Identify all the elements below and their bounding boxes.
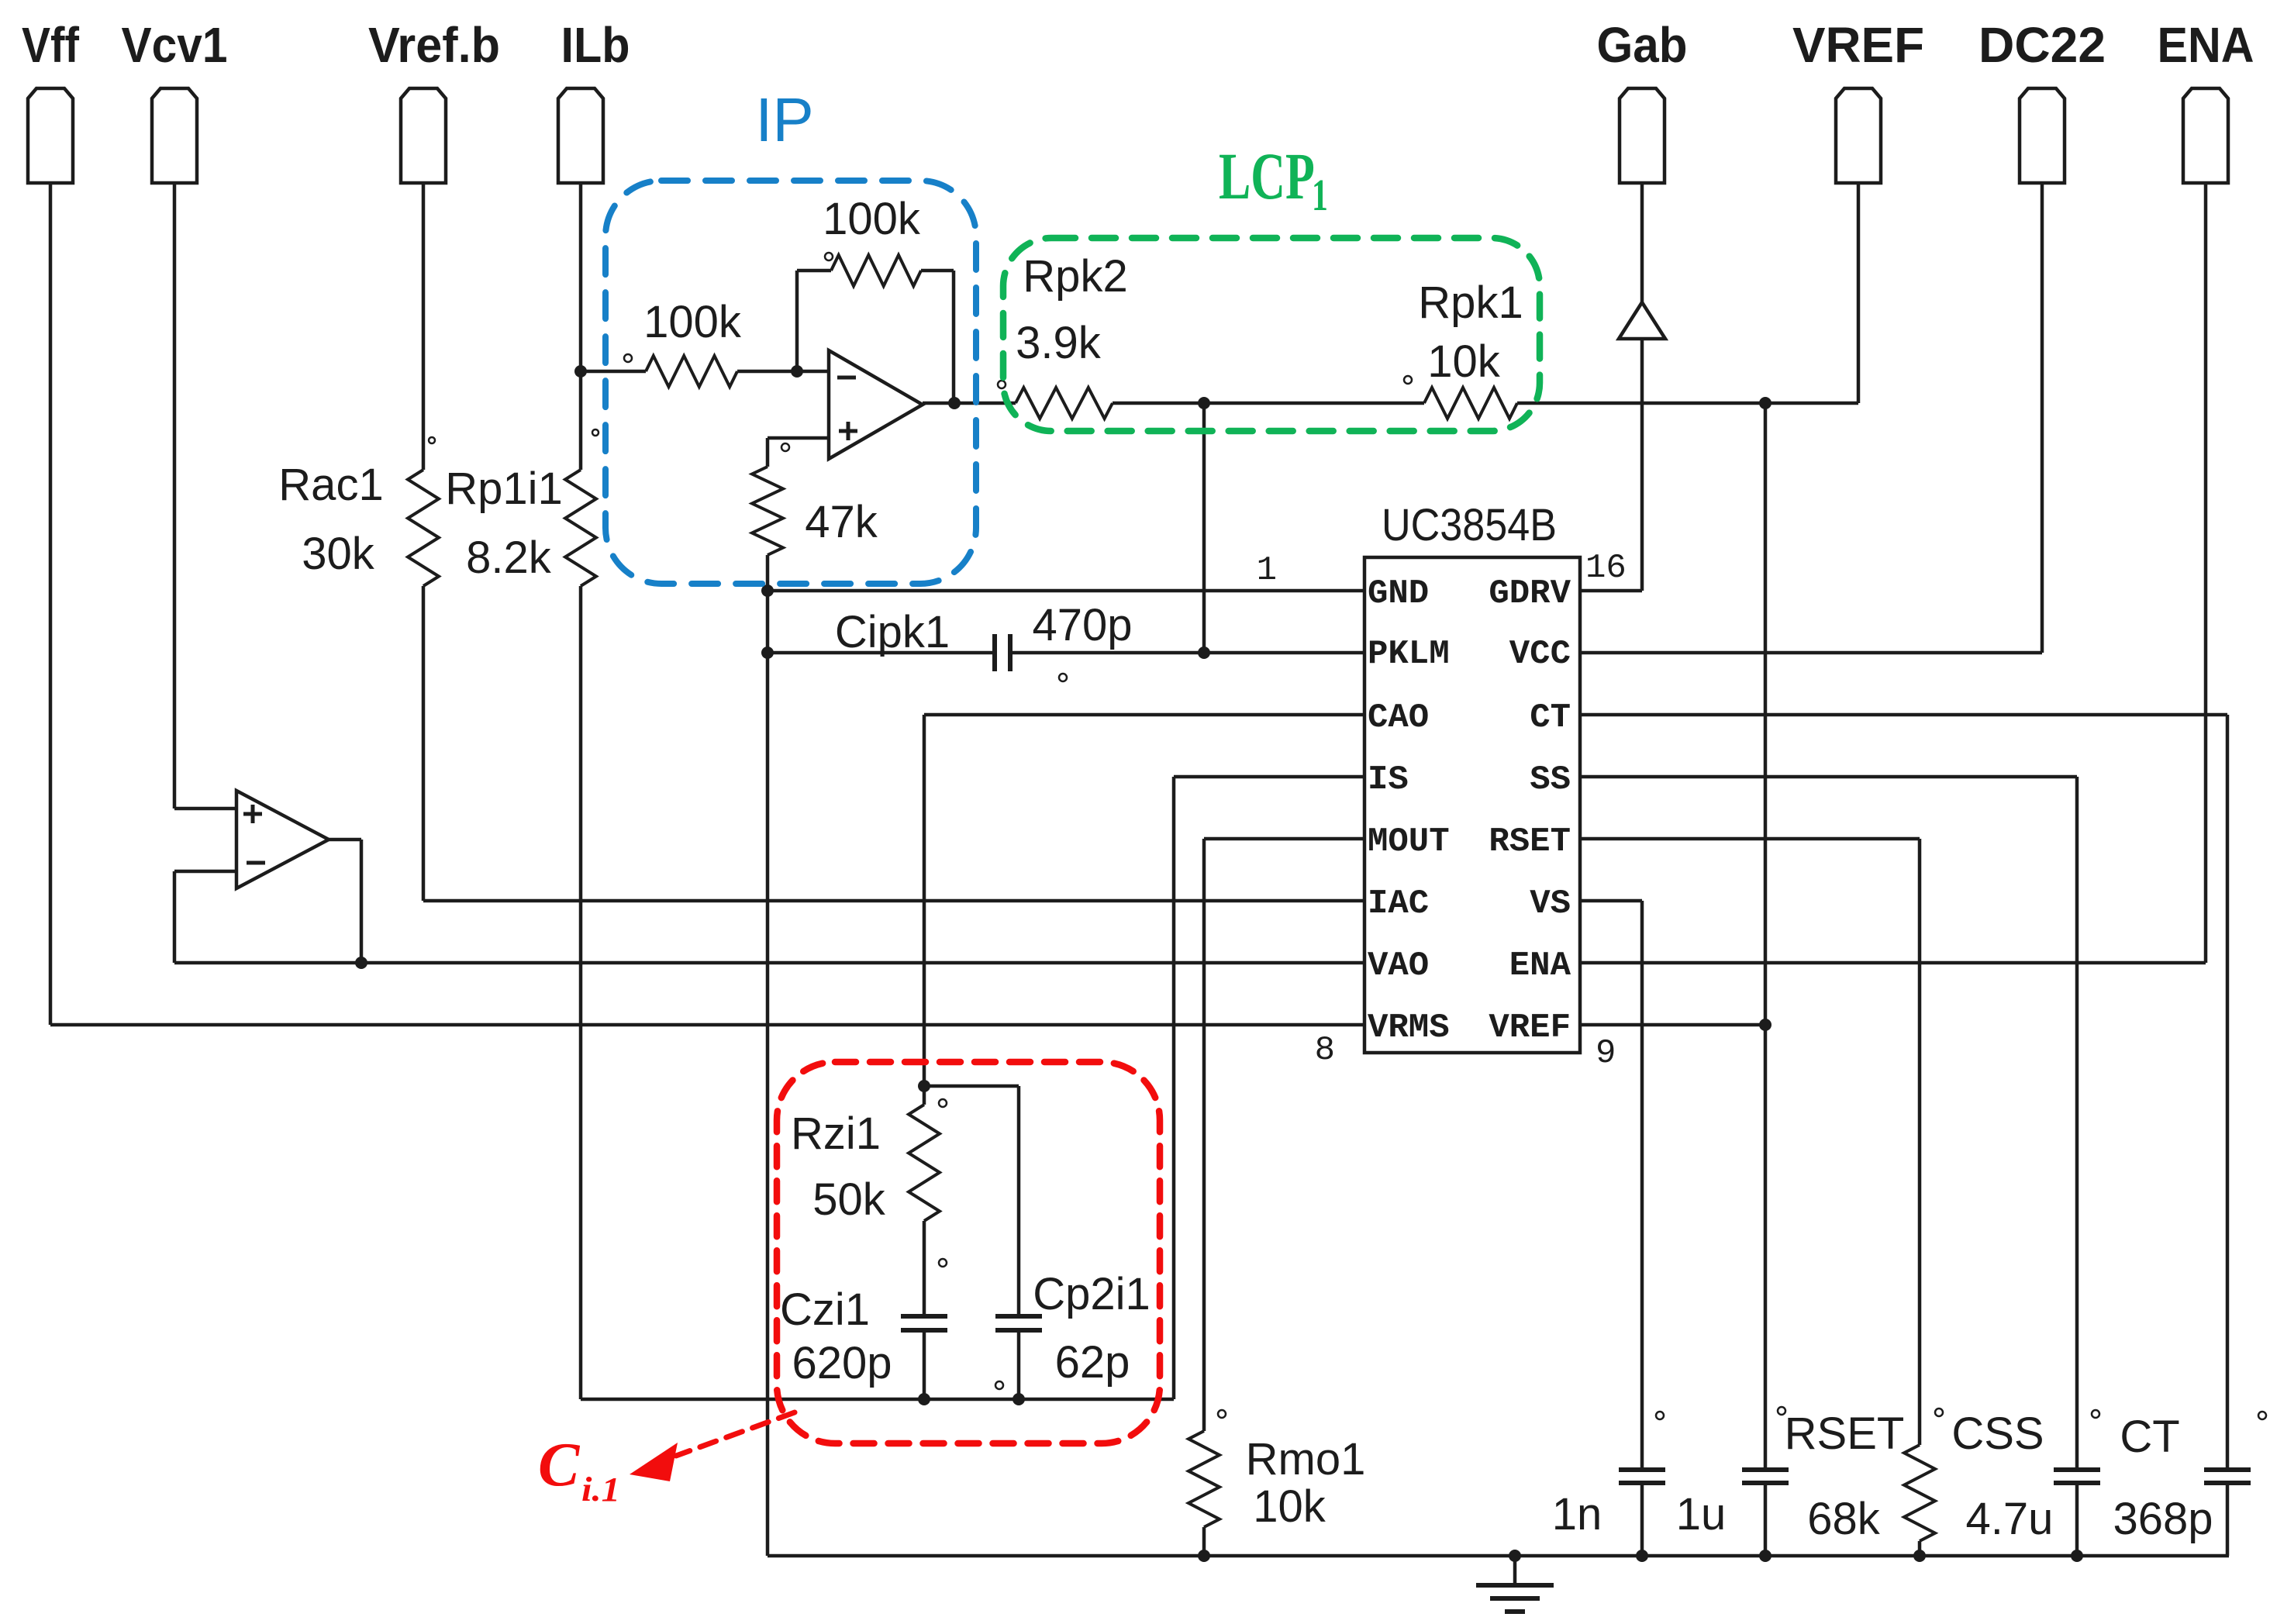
svg-text:10k: 10k: [1253, 1481, 1326, 1532]
capacitor Cp2i1 62p: [995, 1269, 1151, 1399]
svg-text:SS: SS: [1530, 760, 1571, 799]
terminal VREF: [1792, 17, 1924, 183]
node Czi1 bottom: [918, 1393, 930, 1405]
terminal DC22: [1978, 17, 2106, 183]
wire GND row: [768, 589, 1364, 593]
svg-text:Rac1: Rac1: [278, 460, 383, 510]
capacitor 1u: [1676, 1470, 1789, 1556]
svg-text:Vff: Vff: [22, 17, 80, 73]
svg-text:8: 8: [1315, 1031, 1335, 1070]
resistor Rp1i1 8.2k: [445, 429, 599, 586]
IC pin labels: [1368, 574, 1571, 1047]
node ground stub junction: [1509, 1550, 1521, 1562]
svg-text:GDRV: GDRV: [1489, 574, 1571, 613]
svg-text:RSET: RSET: [1785, 1409, 1905, 1459]
svg-text:50k: 50k: [812, 1174, 886, 1225]
resistor 100k feedback: [797, 194, 954, 286]
svg-text:4.7u: 4.7u: [1966, 1494, 2054, 1544]
node 1n ground junction: [1636, 1550, 1648, 1562]
node 1u ground junction: [1759, 1550, 1771, 1562]
svg-text:470p: 470p: [1032, 600, 1132, 650]
svg-text:MOUT: MOUT: [1368, 822, 1450, 861]
IC U3 UC3854B: [1364, 500, 1580, 1053]
svg-text:1u: 1u: [1676, 1489, 1727, 1540]
svg-text:Gab: Gab: [1597, 17, 1688, 73]
svg-text:68k: 68k: [1807, 1494, 1881, 1544]
wire ground rail: [768, 1554, 2229, 1558]
svg-text:ILb: ILb: [561, 17, 630, 73]
svg-text:DC22: DC22: [1978, 17, 2106, 73]
svg-text:368p: 368p: [2113, 1494, 2213, 1544]
wire VCC row: [1580, 651, 2042, 655]
svg-text:VCC: VCC: [1509, 635, 1571, 674]
wire Rpk1 to VREF terminal: [1517, 184, 1858, 403]
capacitor CT 368p: [2092, 1410, 2266, 1556]
wire CAO drop: [923, 715, 926, 1086]
resistor RSET 68k: [1778, 1407, 1935, 1556]
wire feedback up: [795, 271, 799, 371]
capacitor Czi1 620p: [780, 1284, 947, 1399]
wire VS row: [1580, 899, 1642, 903]
node PKLM mid junction: [1198, 646, 1210, 659]
wire IS bottom row: [581, 1398, 1174, 1402]
svg-text:3.9k: 3.9k: [1016, 318, 1102, 368]
svg-text:8.2k: 8.2k: [466, 533, 552, 583]
op-amp U1 current amplifier: [829, 350, 923, 459]
node VAO output junction: [355, 957, 367, 969]
wire DC22 vertical: [2041, 184, 2044, 653]
pin number 1: [1257, 551, 1277, 590]
svg-text:100k: 100k: [643, 297, 742, 347]
svg-text:PKLM: PKLM: [1368, 635, 1450, 674]
node VREF row junction: [1759, 1019, 1771, 1031]
svg-text:VS: VS: [1530, 884, 1571, 923]
wire ENA row: [1580, 961, 2206, 965]
svg-text:IAC: IAC: [1368, 884, 1429, 923]
node PKLM left junction: [761, 646, 774, 659]
svg-text:C: C: [538, 1431, 581, 1499]
svg-text:1n: 1n: [1552, 1489, 1602, 1540]
capacitor Cipk1 470p: [835, 600, 1133, 681]
svg-text:UC3854B: UC3854B: [1382, 500, 1557, 550]
wire MOUT drop: [1202, 839, 1206, 1431]
svg-text:LCP: LCP: [1219, 140, 1315, 213]
resistor 47k: [752, 443, 878, 555]
label Ci.1: [538, 1431, 620, 1508]
wire RSET row: [1580, 837, 1920, 841]
wire CT row: [1580, 713, 2227, 717]
svg-text:CSS: CSS: [1951, 1409, 2044, 1459]
arrow to Ci.1 label: [630, 1412, 795, 1481]
wire VRMS row: [50, 1023, 1364, 1027]
node Rmo1 ground junction: [1198, 1550, 1210, 1562]
svg-text:CT: CT: [1530, 698, 1571, 737]
terminal ENA: [2158, 17, 2254, 183]
buffer symbol on Gab line: [1619, 302, 1665, 339]
wire PKLM row left: [768, 651, 995, 655]
svg-text:VREF: VREF: [1792, 17, 1924, 73]
resistor Rac1 30k: [278, 437, 439, 586]
svg-text:Cipk1: Cipk1: [835, 607, 950, 657]
wire IS row: [1174, 775, 1364, 779]
wire ENA vertical: [2204, 184, 2208, 963]
wire U1 + input: [768, 438, 829, 467]
pin number 9: [1596, 1034, 1616, 1073]
node feedback tap: [948, 397, 961, 409]
op-amp U2 voltage follower: [236, 791, 329, 888]
svg-text:ENA: ENA: [1509, 946, 1571, 985]
wire U1 output: [923, 402, 1016, 405]
wire PKLM row right: [1010, 651, 1364, 655]
svg-text:47k: 47k: [805, 497, 878, 547]
wire Vref.b vertical upper: [422, 184, 426, 470]
node VREF column tap: [1759, 397, 1771, 409]
wire U2 feedback: [174, 871, 236, 963]
svg-text:CT: CT: [2120, 1412, 2179, 1462]
terminal Vcv1: [122, 17, 228, 183]
svg-text:ENA: ENA: [2158, 17, 2254, 73]
wire RSET drop: [1918, 839, 1922, 1445]
dashed box LCP1 (green): [1003, 140, 1540, 431]
terminal ILb: [558, 17, 630, 183]
pin number 8: [1315, 1031, 1335, 1070]
wire Rac1 to IAC corner: [422, 586, 426, 901]
svg-text:62p: 62p: [1055, 1337, 1130, 1388]
wire SS row: [1580, 775, 2077, 779]
node CSS ground junction: [2071, 1550, 2083, 1562]
wire U2 output: [329, 840, 361, 963]
terminal Vref.b: [368, 17, 500, 183]
svg-text:IP: IP: [755, 85, 814, 154]
capacitor 1n: [1552, 1412, 1665, 1556]
dashed box IP (blue): [605, 85, 976, 584]
svg-text:16: 16: [1585, 549, 1627, 588]
svg-text:Cp2i1: Cp2i1: [1033, 1269, 1151, 1319]
svg-text:Vref.b: Vref.b: [368, 17, 500, 73]
svg-text:VAO: VAO: [1368, 946, 1429, 985]
node ILb junction: [574, 365, 587, 378]
terminal Vff: [22, 17, 80, 183]
wire GDRV row: [1580, 339, 1642, 591]
wire 47k to ground rail: [766, 555, 770, 1556]
svg-text:Vcv1: Vcv1: [122, 17, 228, 73]
wire CAO row: [924, 713, 1364, 717]
svg-text:Czi1: Czi1: [780, 1284, 870, 1335]
svg-text:10k: 10k: [1427, 336, 1501, 387]
resistor Rpk2 3.9k: [998, 251, 1128, 419]
node RSET ground junction: [1913, 1550, 1926, 1562]
wire Gab vertical: [1640, 184, 1644, 302]
wire Vcv1 vertical: [173, 184, 177, 809]
terminal Gab: [1597, 17, 1688, 183]
svg-text:Rpk2: Rpk2: [1023, 251, 1127, 302]
resistor Rzi1 50k: [791, 1086, 947, 1315]
svg-text:100k: 100k: [823, 194, 921, 244]
wire PKLM drop: [1202, 403, 1206, 653]
wire VREF column: [1764, 403, 1768, 1470]
svg-text:IS: IS: [1368, 760, 1409, 799]
svg-text:Rmo1: Rmo1: [1246, 1434, 1366, 1484]
wire ILb vertical lower: [579, 586, 583, 1399]
wire feedback down: [952, 271, 956, 403]
wire VS drop: [1640, 901, 1644, 1470]
node compensation top: [918, 1080, 930, 1092]
svg-text:Rpk1: Rpk1: [1418, 278, 1523, 328]
wire ILb vertical upper: [579, 184, 583, 470]
resistor Rmo1 10k: [1188, 1410, 1365, 1556]
svg-text:1: 1: [1312, 170, 1328, 219]
resistor Rpk1 10k: [1404, 278, 1523, 419]
wire IS drop: [1172, 777, 1176, 1399]
svg-text:9: 9: [1596, 1034, 1616, 1073]
wire CT drop: [2226, 715, 2230, 1470]
svg-text:620p: 620p: [792, 1338, 892, 1388]
wire MOUT row: [1204, 837, 1364, 841]
node 47k GND junction: [761, 584, 774, 597]
svg-text:1: 1: [1257, 551, 1277, 590]
resistor 100k input: [581, 297, 829, 387]
svg-text:30k: 30k: [302, 529, 375, 579]
wire Vcv1 to op-amp +: [174, 807, 236, 811]
capacitor CSS 4.7u: [1935, 1409, 2100, 1556]
svg-text:RSET: RSET: [1489, 822, 1571, 861]
svg-text:i.1: i.1: [581, 1471, 620, 1508]
node Cp2i1 bottom: [1013, 1393, 1025, 1405]
svg-text:Rzi1: Rzi1: [791, 1109, 881, 1159]
svg-text:GND: GND: [1368, 574, 1429, 613]
node PKLM tap: [1198, 397, 1210, 409]
wire IAC row: [423, 899, 1364, 903]
dashed box Ci.1 (red): [777, 1062, 1160, 1443]
wire Cp2i1 top branch: [924, 1086, 1019, 1315]
svg-text:VRMS: VRMS: [1368, 1009, 1450, 1047]
wire Vff vertical: [49, 184, 53, 1025]
svg-text:Rp1i1: Rp1i1: [445, 464, 563, 514]
ground: [1476, 1556, 1554, 1612]
svg-text:CAO: CAO: [1368, 698, 1429, 737]
svg-text:VREF: VREF: [1489, 1009, 1571, 1047]
wire Rpk2 to Rpk1: [1113, 402, 1424, 405]
wire SS drop: [2075, 777, 2079, 1470]
wire VREF row: [1580, 1023, 1765, 1027]
wire VAO row: [174, 961, 1364, 965]
pin number 16: [1585, 549, 1627, 588]
node inverting input: [791, 365, 803, 378]
